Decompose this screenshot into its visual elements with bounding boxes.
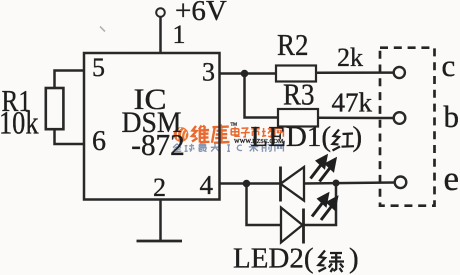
svg-text:3: 3 — [202, 58, 215, 87]
svg-text:4: 4 — [200, 170, 214, 200]
svg-text:c: c — [442, 48, 456, 83]
svg-text:-872: -872 — [131, 127, 185, 162]
svg-text:47k: 47k — [332, 87, 373, 117]
svg-text:1: 1 — [173, 20, 186, 49]
svg-text:2: 2 — [153, 173, 166, 202]
svg-text:R3: R3 — [283, 77, 315, 112]
svg-text:2k: 2k — [337, 43, 363, 72]
svg-text:b: b — [444, 99, 460, 134]
svg-text:6: 6 — [92, 126, 106, 157]
svg-text:10k: 10k — [0, 106, 39, 142]
svg-text:5: 5 — [92, 53, 105, 82]
svg-text:R2: R2 — [277, 27, 309, 62]
svg-text:TM: TM — [231, 122, 238, 127]
svg-text:LED2(: LED2( — [233, 243, 314, 275]
svg-text:): ) — [353, 121, 363, 153]
svg-text:): ) — [349, 243, 359, 275]
svg-text:e: e — [444, 159, 460, 198]
svg-text:LED1(: LED1( — [251, 121, 332, 153]
